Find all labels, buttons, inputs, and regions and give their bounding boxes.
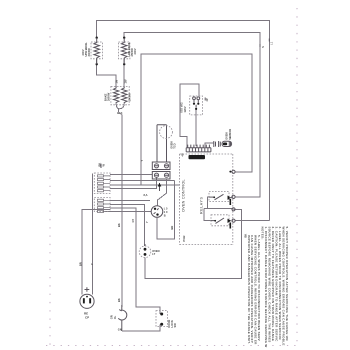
wire connector1 to U node [110, 180, 175, 182]
label coil2 value [127, 42, 137, 57]
svg-text:SW: SW [173, 323, 177, 328]
terminal block TB2 [152, 172, 170, 180]
label coil3 left [104, 92, 111, 101]
label door lock switch [167, 320, 177, 328]
node dot coil2 top [123, 37, 125, 39]
wire coil2 bottom to coil3 top-right [123, 59, 125, 87]
svg-text:CAN CAUSE IMPROPER AND DANGERO: CAN CAUSE IMPROPER AND DANGEROUS OPERATI… [250, 235, 254, 343]
svg-text:Y: Y [145, 221, 149, 223]
node dot coil1 bottom [96, 63, 98, 65]
wire ground clamp to door lock bottom [122, 324, 160, 331]
connector P2 (lower) [94, 198, 110, 213]
wire oven light to relay drop [145, 220, 241, 279]
svg-text:Y: Y [90, 263, 94, 265]
svg-text:WHEN SERVICING CONTROLS. WIRIN: WHEN SERVICING CONTROLS. WIRING ERRORS C… [282, 227, 286, 346]
resistor coil1 surface element [91, 38, 102, 64]
svg-text:B: B [164, 214, 166, 218]
wire T3 jog to T4 line [234, 209, 242, 220]
wire relay K2 common loop [204, 209, 211, 221]
wire relay K1 common loop [207, 197, 209, 208]
terminal T2 [232, 195, 235, 198]
wire coil2 top loop to terminal T2 [124, 33, 260, 197]
label GR ground [110, 315, 122, 331]
svg-text:1 0: 1 0 [164, 210, 168, 214]
terminal T4 [232, 219, 235, 222]
wire connector1 to control box [110, 184, 180, 186]
page fold dotted line left [49, 28, 51, 346]
svg-text:LT: LT [152, 252, 155, 256]
wire TB2 to motor top [158, 179, 167, 206]
label P1S2 black blob [189, 155, 206, 159]
ground clamp symbol [118, 305, 127, 331]
svg-text:4. LABEL ALL WIRES PRIOR TO DI: 4. LABEL ALL WIRES PRIOR TO DISCONNECTIO… [278, 227, 282, 340]
door lock switch [156, 311, 168, 327]
svg-text:L 5: L 5 [164, 207, 168, 211]
svg-text:5. VERIFY PROPER OPERATION AFT: 5. VERIFY PROPER OPERATION AFTER SERVICI… [285, 227, 289, 341]
wire y54: vertical x141 junction to T1 [141, 54, 252, 185]
label coil1 value [81, 42, 91, 57]
svg-text:3400W: 3400W [87, 48, 91, 57]
svg-text:120V: 120V [183, 106, 187, 112]
notes text block [247, 227, 289, 348]
isolation relay ISO [190, 96, 203, 115]
wire connector2 to motor left [110, 210, 151, 212]
svg-text:5. LABEL ALL WIRES PRIOR TO DI: 5. LABEL ALL WIRES PRIOR TO DISCONNECTIO… [257, 235, 261, 341]
svg-text:2. REFER ONLY TO FEATURES EQUI: 2. REFER ONLY TO FEATURES EQUIPPED ON YO… [271, 227, 275, 342]
label plug [84, 312, 89, 320]
arrow below TB2 [158, 183, 162, 191]
wire plug right leg [92, 174, 94, 295]
resistor coil2 surface element [119, 38, 130, 64]
wire plug left leg [82, 210, 110, 295]
terminal T3 [232, 208, 235, 211]
node dot coil1 top [96, 37, 98, 39]
svg-text:240V: 240V [133, 48, 137, 54]
svg-text:BK: BK [117, 298, 121, 302]
wire bundle connector1 to terminal block [110, 173, 152, 175]
oven sensor [214, 141, 232, 147]
svg-text:WHEN SERVICING CONTROLS. WIRIN: WHEN SERVICING CONTROLS. WIRING ERRORS C… [254, 235, 258, 345]
oven light dashed circle [139, 244, 151, 258]
wire coil3 bottom long drop to ground clamp [116, 104, 124, 307]
resistor coil3 bake element (dual) [111, 86, 129, 104]
svg-text:N: N [261, 46, 265, 48]
label 4P tick [204, 98, 206, 101]
relay K1 [209, 192, 232, 206]
plug receptacle P3 [80, 287, 94, 308]
svg-text:GN: GN [118, 328, 122, 332]
terminal block TB1 [152, 162, 170, 170]
svg-text:2605W: 2605W [107, 92, 111, 101]
svg-text:8,A: 8,A [144, 193, 148, 197]
wire connector1 to block2 left pin [110, 178, 157, 189]
label OVEN SENSOR [225, 129, 232, 140]
relay K2 [211, 215, 231, 229]
svg-text:BR: BR [79, 262, 83, 266]
svg-text:BR: BR [170, 226, 174, 230]
motor circle M1 (fan) [151, 206, 163, 218]
svg-text:CP: CP [85, 315, 89, 319]
connector P1 (upper) [94, 173, 110, 194]
wire connector2 to circle area [110, 200, 150, 202]
oven TCO assembly [157, 125, 172, 162]
wire T3 feed [204, 208, 234, 210]
svg-text:RELAYS: RELAYS [200, 196, 204, 214]
terminal T1 [232, 170, 235, 173]
svg-text:1. DISCONNECT RANGE FROM POWER: 1. DISCONNECT RANGE FROM POWER SOURCE BE… [264, 227, 268, 348]
svg-text:BK: BK [117, 223, 121, 227]
wire ISO to strip [195, 110, 197, 146]
svg-text:4P: 4P [181, 153, 185, 156]
svg-text:4P: 4P [205, 98, 209, 101]
wire x136 connector2 to door lock top [110, 208, 160, 314]
svg-text:Y: Y [140, 160, 144, 162]
label oven light [152, 249, 159, 256]
label BK W above connector P1 [98, 163, 106, 168]
svg-text:OVEN CONTROL: OVEN CONTROL [182, 179, 186, 212]
node dot coil2 bottom [123, 63, 125, 65]
svg-text:CL: CL [113, 315, 117, 319]
svg-text:1000W: 1000W [128, 93, 132, 102]
svg-text:L1: L1 [269, 41, 273, 45]
svg-text:SENSOR: SENSOR [228, 129, 232, 140]
wire strip to oven sensor [205, 143, 214, 148]
svg-text:GY: GY [131, 218, 135, 222]
connector strip P1S2 [186, 145, 211, 152]
svg-text:3. CAUTION: PLEASE RETURN DIAG: 3. CAUTION: PLEASE RETURN DIAGRAM TO RAN… [275, 227, 279, 343]
label ISO [180, 102, 187, 113]
svg-text:P112: P112 [182, 235, 186, 241]
wire L1 top loop: coil1 top to terminal T4 via right side [97, 21, 270, 221]
oven control outer box top [179, 84, 199, 96]
label motor M1 [164, 207, 168, 218]
wire connector2 to oven light drop [110, 205, 145, 246]
svg-text:1W: 1W [124, 79, 128, 83]
svg-text:NOTES:: NOTES: [261, 227, 265, 240]
wire U loop motor bottom to control [157, 181, 175, 240]
svg-text:TCO: TCO [173, 143, 177, 148]
wire coil1 bottom to coil3 top-left [97, 59, 116, 87]
page fold dotted line bottom [46, 345, 300, 347]
oven control dashed box [180, 154, 233, 245]
dot left of T1 [229, 171, 231, 173]
wire T4 to right riser [235, 220, 269, 222]
svg-text:1N: 1N [115, 80, 119, 83]
wire control left edge drop to U [180, 84, 187, 148]
label OVEN TCO [170, 141, 177, 148]
page fold dotted line right [296, 8, 298, 346]
svg-text:SOURCE BEFORE REMOVING WIRE CO: SOURCE BEFORE REMOVING WIRE COVER. CHECK… [268, 227, 272, 343]
